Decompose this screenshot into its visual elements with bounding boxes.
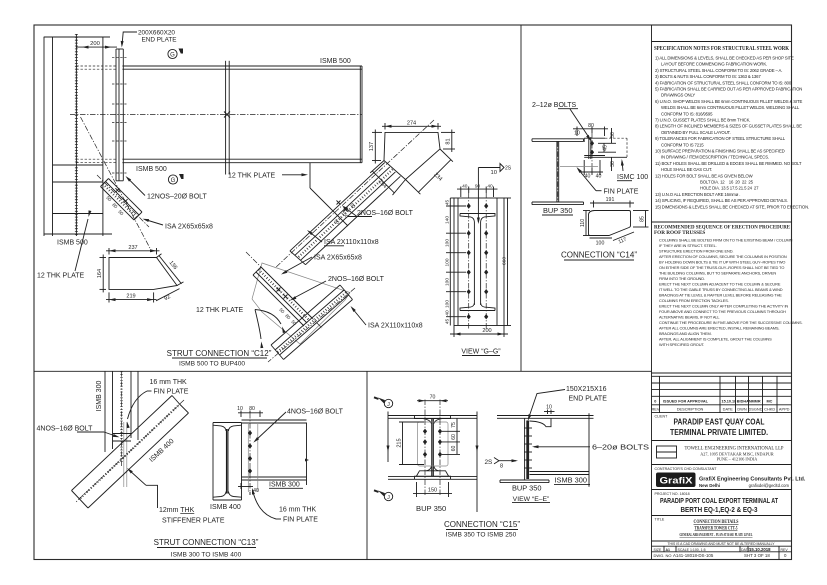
svg-text:274: 274	[407, 120, 416, 126]
svg-text:SIZE: SIZE	[654, 548, 662, 552]
C13 right dims 10 80 40	[237, 406, 263, 495]
C13 right detail ISMB 300 beam	[242, 420, 307, 480]
dimension 200 between column face and end plate	[76, 41, 117, 49]
label 16 mm THK FIN PLATE right with leader	[251, 488, 319, 524]
diagonal brace ISA 2X110x110x8 upper band	[275, 120, 434, 268]
svg-text:THIS IS A CAD DRAWING AND MUST: THIS IS A CAD DRAWING AND MUST NOT BE AL…	[667, 542, 775, 546]
C12 strut ISA 2X65x65x8 band	[246, 252, 322, 328]
brace bolt spacing dims 50 100 50	[333, 202, 356, 225]
svg-text:DWG. NO: DWG. NO	[654, 553, 672, 558]
C15 bolt centrelines	[425, 400, 440, 496]
label ISMB 400 below section	[210, 504, 241, 511]
svg-text:ISMB 500: ISMB 500	[57, 240, 88, 247]
svg-text:ISMB 350 TO ISMB 250: ISMB 350 TO ISMB 250	[446, 532, 517, 539]
C15 dimension 215	[396, 422, 424, 465]
cad note band	[652, 542, 792, 546]
svg-text:BUP 350: BUP 350	[512, 483, 541, 492]
svg-text:REV: REV	[652, 407, 660, 412]
svg-text:4NOS–16Ø BOLT: 4NOS–16Ø BOLT	[37, 426, 94, 433]
VIEW G-G I-beam bottom flange	[460, 303, 495, 311]
svg-text:15) DIMENSIONS & LEVELS SHALL: 15) DIMENSIONS & LEVELS SHALL BE CHECKED…	[655, 204, 809, 209]
svg-text:200: 200	[482, 328, 491, 334]
beam centreline	[70, 112, 362, 118]
C15 dimensions 75 60 60	[442, 418, 460, 454]
label 12 THK PLATE near stiffener with arrow	[228, 173, 308, 180]
C12 main member BUP400 band	[268, 285, 355, 362]
specification notes heading	[654, 46, 789, 52]
svg-text:75: 75	[451, 422, 457, 428]
svg-text:219: 219	[126, 294, 135, 300]
svg-text:ISMB 300 TO ISMB 400: ISMB 300 TO ISMB 400	[171, 552, 242, 559]
column ISMB 500 left flange line	[43, 37, 45, 236]
svg-text:137: 137	[369, 142, 375, 151]
C13 right bolts	[248, 413, 252, 492]
svg-text:10: 10	[237, 406, 243, 412]
svg-text:ISMB 300: ISMB 300	[96, 381, 103, 412]
svg-text:BY HOLDING DOWN BOLTS & TIE IT: BY HOLDING DOWN BOLTS & TIE IT UP WITH S…	[659, 260, 785, 265]
svg-text:12 THK PLATE: 12 THK PLATE	[37, 273, 85, 280]
svg-text:2S: 2S	[505, 166, 512, 172]
svg-text:81: 81	[445, 138, 451, 144]
svg-text:MC: MC	[767, 400, 773, 404]
svg-text:6–20ø BOLTS: 6–20ø BOLTS	[592, 443, 649, 452]
VIEW G-G bolts 12 nos	[467, 203, 489, 319]
svg-text:BOLT DIA. 12 16 20 22 25: BOLT DIA. 12 16 20 22 25	[700, 180, 754, 185]
stiffener plate 12 THK crossing beam	[226, 61, 230, 175]
svg-text:ISMB 300: ISMB 300	[269, 482, 300, 489]
svg-text:16 mm THK: 16 mm THK	[279, 507, 317, 514]
svg-text:AFTER, ALL ALIGNMENT IS COMPLE: AFTER, ALL ALIGNMENT IS COMPLETE, GROUT …	[659, 337, 772, 342]
C15 side extension lines	[387, 412, 479, 513]
svg-text:660: 660	[501, 257, 507, 265]
svg-text:CHKD: CHKD	[764, 407, 775, 412]
C15 top beam	[388, 416, 477, 419]
svg-text:2S: 2S	[485, 459, 493, 466]
svg-text:IN DRAWING / ITEM DESCRIPTION: IN DRAWING / ITEM DESCRIPTION / TECHNICA…	[661, 155, 769, 160]
C14 gusset plate shape	[589, 211, 631, 236]
label ISA 2X65x65x8 at C12 with leader	[280, 255, 362, 276]
svg-text:DRAWINGS ONLY: DRAWINGS ONLY	[661, 93, 695, 98]
svg-text:12NOS–20Ø BOLT: 12NOS–20Ø BOLT	[147, 194, 208, 201]
svg-text:150: 150	[428, 488, 437, 494]
svg-text:100: 100	[445, 239, 451, 247]
recommended box bottom line	[652, 372, 792, 374]
svg-text:70: 70	[430, 395, 436, 401]
svg-text:AFTER ERECTION OF COLUMNS, SEC: AFTER ERECTION OF COLUMNS, SECURE THE CO…	[659, 254, 787, 259]
svg-text:ISMB 300: ISMB 300	[555, 476, 587, 485]
svg-text:GrafiX Engineering Consultants: GrafiX Engineering Consultants Pvt. Ltd.	[699, 477, 806, 483]
C15 dimension 150	[413, 482, 452, 497]
svg-text:HOLE DIA. 13.5 17.5 21.5 24 2: HOLE DIA. 13.5 17.5 21.5 24 27	[700, 186, 759, 191]
svg-text:CONNECTION “C15”: CONNECTION “C15”	[444, 520, 520, 529]
title CONNECTION C15	[444, 520, 520, 539]
svg-text:CLIENT: CLIENT	[655, 415, 669, 419]
beam hidden flange dashed lines	[76, 66, 116, 163]
label FIN PLATE with leader	[560, 166, 639, 195]
svg-text:ISA 2X110x110x8: ISA 2X110x110x8	[324, 239, 379, 246]
BUP 350 top flange	[532, 139, 584, 142]
svg-text:164: 164	[97, 269, 103, 278]
svg-text:15.10.2018: 15.10.2018	[749, 547, 771, 552]
C15 centre I-beam web dark	[432, 418, 434, 476]
svg-text:12) HOLES FOR BOLT SHALL BE AS: 12) HOLES FOR BOLT SHALL BE AS GIVEN BEL…	[655, 173, 754, 178]
dimension 81 right of gusset	[441, 130, 455, 153]
svg-text:ISMB 500 TO BUP400: ISMB 500 TO BUP400	[179, 361, 245, 368]
label 2NOS-16 BOLT at C12 with leader	[289, 276, 384, 302]
svg-text:MMR: MMR	[752, 400, 761, 404]
VIEW G-G plate rectangle	[454, 198, 504, 326]
title STRUT CONNECTION C13	[154, 538, 259, 559]
label 2NOS-16 BOLT upper with leader	[341, 204, 413, 217]
svg-text:VIEW “G–G”: VIEW “G–G”	[461, 349, 501, 356]
svg-text:200X660X20: 200X660X20	[138, 30, 175, 37]
svg-text:14) SPLICING, IF REQUIRED, SHA: 14) SPLICING, IF REQUIRED, SHALL BE AS P…	[655, 198, 788, 203]
label BUP 350 left	[416, 504, 446, 513]
svg-text:TRANSFER TOWER CTT-5: TRANSFER TOWER CTT-5	[695, 526, 738, 532]
C13 fin plate light lines	[124, 422, 127, 487]
svg-text:ISA 2X110x110x8: ISA 2X110x110x8	[368, 323, 423, 330]
fin plate between BUP and ISMC	[589, 137, 591, 159]
gusset piece dimension 237	[106, 245, 160, 255]
C14 gusset dimension 191	[590, 197, 634, 208]
svg-text:10: 10	[491, 170, 497, 176]
svg-text:60: 60	[451, 446, 457, 452]
C12 bolt spacing dims rotated	[278, 307, 297, 326]
svg-text:40: 40	[487, 183, 493, 189]
C14 dimension 40 40	[581, 160, 603, 180]
svg-text:2NOS–16Ø BOLT: 2NOS–16Ø BOLT	[328, 276, 385, 283]
VIEW G-G left dimension column	[445, 198, 466, 326]
C15 dimension 70	[417, 395, 448, 403]
specification notes body	[655, 56, 809, 210]
C14 dimension 50 45 30 rotated	[598, 128, 616, 171]
svg-text:9) TOLERANCES FOR FABRICATION: 9) TOLERANCES FOR FABRICATION OF STEEL S…	[655, 136, 786, 141]
svg-text:12 THK PLATE: 12 THK PLATE	[196, 307, 244, 314]
svg-text:ISMC 100: ISMC 100	[617, 174, 648, 181]
label 4NOS-16 BOLT with leader	[37, 426, 120, 439]
svg-text:ISSUED FOR APPROVAL: ISSUED FOR APPROVAL	[663, 400, 709, 404]
svg-text:50: 50	[610, 132, 616, 138]
end plate bolt tick rows	[112, 58, 127, 173]
svg-text:IF THEY ARE IN STRUCT. STEEL.: IF THEY ARE IN STRUCT. STEEL.	[659, 243, 717, 248]
label ISMB 300 right	[269, 482, 303, 489]
svg-text:grafixdel@gecltd.com: grafixdel@gecltd.com	[749, 483, 790, 488]
dimension 234 along gusset right diagonal	[406, 149, 453, 194]
label 16 mm THK FIN PLATE with leader	[126, 379, 189, 428]
C13 right beam end cut line	[305, 423, 309, 486]
svg-text:PARADIP EAST QUAY COAL: PARADIP EAST QUAY COAL	[674, 418, 765, 427]
gusset step below beam end	[310, 163, 348, 226]
svg-text:A1: A1	[666, 548, 671, 552]
C14 gusset dimension 110	[580, 211, 590, 236]
panel divider vertical between left panel and C14 panel	[520, 25, 522, 371]
svg-text:ERECT THE NEXT COLUMN ADJACENT: ERECT THE NEXT COLUMN ADJACENT TO THE CO…	[659, 282, 781, 287]
label 150X215X16 END PLATE with leader	[526, 386, 607, 421]
svg-text:GENERAL ARRANGEMENT – PLAN AT: GENERAL ARRANGEMENT – PLAN AT BASE PLATE…	[680, 533, 753, 537]
strut bolt cross marks	[115, 188, 127, 203]
svg-text:215: 215	[396, 438, 402, 447]
svg-text:13) U.N.O ALL ERECTION BOLT AR: 13) U.N.O ALL ERECTION BOLT ARE 16mmø .	[655, 192, 740, 197]
ISMB 400 diagonal member band	[72, 396, 189, 509]
svg-text:15.10.18: 15.10.18	[722, 400, 737, 404]
svg-text:0: 0	[654, 400, 656, 404]
contractors band with GrafiX logo	[652, 467, 806, 490]
revision row 0 issued for approval	[654, 400, 772, 404]
label ISMB 400 rotated along band	[148, 438, 175, 464]
C14 gusset dimension 85	[633, 211, 649, 228]
svg-text:SPECIFICATION NOTES FOR STRUCT: SPECIFICATION NOTES FOR STRUCTURAL STEEL…	[654, 46, 789, 52]
BUP 350 bottom flange	[532, 202, 584, 205]
C14 gusset dimension 117 rotated	[613, 232, 634, 245]
gusset piece dimension 164	[97, 255, 106, 293]
C13 right fin plate	[248, 424, 257, 492]
svg-text:150X215X16: 150X215X16	[566, 386, 607, 393]
C14 gusset dimension 100	[590, 238, 613, 247]
C15 fin plate light rounded rect	[418, 422, 449, 466]
label 2-12 BOLTS with leader	[532, 102, 592, 142]
ISMB 300 hatched centreline	[120, 371, 122, 466]
svg-text:200: 200	[90, 41, 100, 47]
svg-text:80: 80	[588, 123, 594, 129]
svg-text:8) LENGTH OF INCLINED MEMBERS: 8) LENGTH OF INCLINED MEMBERS & SIZES OF…	[655, 124, 802, 129]
label 12NOS-20 BOLT with leader	[124, 175, 207, 201]
svg-text:45: 45	[602, 145, 608, 151]
svg-text:SHT 3 OF 18: SHT 3 OF 18	[744, 553, 770, 558]
C15 bolts 6 nos	[423, 429, 442, 458]
svg-text:STRUT CONNECTION “C12”: STRUT CONNECTION “C12”	[167, 349, 272, 358]
svg-text:FOR ROOF TRUSSES: FOR ROOF TRUSSES	[654, 230, 705, 236]
svg-text:DWN: DWN	[737, 407, 746, 412]
specification notes box top line	[652, 41, 792, 43]
label 6-20 BOLTS with leader	[532, 443, 649, 452]
svg-text:2–12ø BOLTS: 2–12ø BOLTS	[532, 102, 577, 109]
beam right end plate	[360, 66, 362, 163]
title band	[652, 518, 792, 542]
svg-text:APPD: APPD	[779, 407, 790, 412]
BUP 350 bottom flange bar	[500, 480, 549, 483]
svg-text:237: 237	[128, 245, 137, 251]
svg-text:COLUMNS FROM ERECTION TACKLES.: COLUMNS FROM ERECTION TACKLES.	[659, 298, 729, 303]
svg-text:CONNECTION “C14”: CONNECTION “C14”	[561, 251, 637, 260]
VIEW G-G weld leader 10 2S	[477, 164, 512, 225]
ISMC 100 channel	[584, 138, 627, 157]
gusset pentagon at beam end	[384, 132, 440, 179]
svg-text:BUP 350: BUP 350	[416, 504, 446, 513]
strut ISA 2X65x65x8 at column	[97, 175, 149, 227]
label 12 THK PLATE at C12 with curved leader	[196, 307, 286, 348]
svg-text:45: 45	[445, 200, 451, 206]
svg-text:THE BUILDING COLUMNS, BUT TO S: THE BUILDING COLUMNS, BUT TO SEPARATE AN…	[659, 271, 776, 276]
section marker G bottom	[168, 174, 183, 184]
svg-text:WELDS SHALL BE 6mm CONTINUOUS: WELDS SHALL BE 6mm CONTINUOUS FILLET WEL…	[661, 105, 800, 110]
C13 right detail ISMB 400 column section	[213, 423, 242, 501]
revision table grid	[652, 376, 792, 412]
svg-text:STRUT CONNECTION “C13”: STRUT CONNECTION “C13”	[154, 538, 259, 547]
svg-text:BUP 350: BUP 350	[543, 206, 572, 215]
svg-text:100: 100	[445, 300, 451, 308]
section marker J bottom	[374, 490, 393, 501]
title VIEW E-E	[512, 496, 550, 503]
brace bolt cross marks	[337, 201, 348, 212]
recommended sequence body	[659, 238, 803, 348]
C14 bolts	[590, 133, 594, 168]
panel divider horizontal above bottom panels	[34, 370, 652, 372]
label ISA 2X65x65x8 (column strut) with leader	[142, 217, 213, 230]
label BUP 350 E-E	[512, 483, 541, 492]
column rung stiffener lines	[44, 165, 112, 234]
C15 bottom beam	[388, 476, 477, 479]
svg-text:END PLATE: END PLATE	[569, 396, 608, 403]
svg-text:DATE: DATE	[723, 407, 733, 412]
svg-text:G: G	[171, 178, 176, 184]
svg-text:7) U.N.O. GUSSET PLATES SHALL: 7) U.N.O. GUSSET PLATES SHALL BE 8mm THI…	[655, 118, 750, 123]
strut bolt spacing dims rotated	[105, 195, 124, 216]
label ISMB 300 E-E	[554, 476, 590, 485]
svg-text:PUNE – 412106 INDIA: PUNE – 412106 INDIA	[717, 457, 758, 462]
svg-text:85: 85	[640, 216, 646, 222]
project band	[652, 492, 792, 516]
svg-text:BERTH EQ-1,EQ-2 & EQ-3: BERTH EQ-1,EQ-2 & EQ-3	[681, 505, 758, 514]
VIEW G-G I-beam top flange	[460, 214, 495, 306]
svg-text:ISA 2X65x65x8: ISA 2X65x65x8	[314, 255, 362, 262]
svg-text:DSGND: DSGND	[748, 407, 762, 412]
svg-text:140: 140	[445, 216, 451, 224]
svg-text:HOLE SHALL BE GAS CUT.: HOLE SHALL BE GAS CUT.	[661, 167, 712, 172]
svg-text:PARADIP PORT COAL EXPORT TERMI: PARADIP PORT COAL EXPORT TERMINAL AT	[660, 496, 778, 505]
svg-text:2NOS–16Ø BOLT: 2NOS–16Ø BOLT	[357, 210, 414, 217]
label ISA 2X110x110x8 upper with leader underlined	[306, 229, 379, 246]
svg-text:30: 30	[610, 161, 616, 167]
svg-text:AFTER ALL COLUMNS ARE ERECTED,: AFTER ALL COLUMNS ARE ERECTED, INSTALL R…	[659, 326, 779, 331]
VIEW E-E bolt ticks on plate	[524, 428, 532, 468]
column label ISMB 500	[57, 240, 88, 247]
label 200X660X20 END PLATE with leader	[120, 30, 176, 48]
column top edge line	[44, 36, 110, 38]
centreline from column to strut	[81, 117, 153, 252]
dimension 154 along gusset lower-left edge	[370, 161, 405, 196]
svg-text:4) FABRICATION OF STRUCTURAL S: 4) FABRICATION OF STRUCTURAL STEEL SHALL…	[655, 80, 792, 85]
VIEW G-G bottom dimension 200	[450, 326, 508, 338]
label ISA 2X110x110x8 at C12 with leader	[349, 305, 422, 329]
VIEW E-E weld symbol 2S 8	[485, 458, 519, 470]
svg-text:191: 191	[606, 197, 615, 203]
svg-text:FIN PLATE: FIN PLATE	[604, 189, 639, 196]
title VIEW G-G	[461, 349, 501, 356]
svg-text:DESCRIPTION: DESCRIPTION	[677, 407, 704, 412]
svg-text:WITH SPECIFIED GROUT.: WITH SPECIFIED GROUT.	[659, 342, 704, 347]
divider between notes boxes	[652, 221, 792, 223]
svg-text:New Delhi: New Delhi	[699, 483, 720, 488]
column label 12 THK PLATE with leader	[37, 210, 91, 279]
panel divider vertical between C13 and C15 panels	[366, 371, 368, 559]
svg-text:ISMB 500: ISMB 500	[320, 58, 351, 65]
svg-text:10) SURFACE PREPARATION & FINI: 10) SURFACE PREPARATION & FINISHING SHAL…	[655, 149, 785, 154]
svg-text:12mm THK: 12mm THK	[159, 507, 195, 514]
svg-text:STIFFENER PLATE: STIFFENER PLATE	[162, 518, 225, 525]
label 4NOS-16 BOLT right with leader	[252, 409, 343, 444]
dwg number row	[654, 553, 788, 558]
svg-text:OBTAINED BY FULL SCALE LAYOUT.: OBTAINED BY FULL SCALE LAYOUT.	[661, 130, 731, 135]
svg-text:10: 10	[574, 131, 580, 137]
svg-text:BRACINGS AT TIE LEVEL & RAFTER: BRACINGS AT TIE LEVEL & RAFTER LEVEL BEF…	[659, 293, 782, 298]
svg-text:SCALE 1:100, 1:5: SCALE 1:100, 1:5	[678, 548, 706, 552]
svg-text:J: J	[387, 495, 390, 501]
svg-text:REV: REV	[781, 548, 789, 552]
VIEW E-E top beam	[497, 416, 594, 419]
svg-text:12 THK PLATE: 12 THK PLATE	[228, 173, 276, 180]
section marker G top	[168, 49, 183, 59]
title CONNECTION C14	[561, 251, 637, 261]
section marker J top	[374, 397, 393, 408]
svg-text:FIRM INTO THE GROUND.: FIRM INTO THE GROUND.	[659, 276, 705, 281]
svg-text:5) FABRICATION SHALL BE CARRIE: 5) FABRICATION SHALL BE CARRIED OUT AS P…	[655, 87, 802, 92]
svg-text:10: 10	[546, 405, 552, 411]
svg-text:ALTERNATIVE BEAMS, IF NOT ALL: ALTERNATIVE BEAMS, IF NOT ALL	[659, 315, 720, 320]
C13 bolt ticks	[113, 434, 131, 442]
towell band	[652, 446, 792, 465]
label ISMB 500 below beam	[136, 166, 167, 173]
gusset plate detail piece	[109, 258, 177, 290]
svg-text:100: 100	[445, 258, 451, 266]
svg-text:100: 100	[596, 241, 605, 247]
beam ISMB 500 top flange	[122, 66, 362, 69]
svg-text:40: 40	[596, 174, 602, 180]
C15 I-beam bottom flange bowl	[415, 466, 451, 479]
svg-text:40: 40	[462, 183, 468, 189]
revision header row	[652, 407, 790, 412]
title STRUT CONNECTION C12	[167, 349, 272, 368]
svg-text:6) U.N.O. SHOP WELDS SHALL BE: 6) U.N.O. SHOP WELDS SHALL BE 6mm CONTIN…	[655, 99, 802, 104]
svg-text:A141-18018-DS-105: A141-18018-DS-105	[673, 553, 714, 558]
svg-text:TITLE: TITLE	[655, 518, 665, 522]
svg-text:GrafiX: GrafiX	[660, 476, 694, 487]
C14 dimension 80 and 10	[573, 123, 608, 137]
svg-text:G: G	[170, 53, 175, 59]
notes column left edge	[651, 25, 653, 560]
svg-text:FOUR ABOVE AND CONNECT TO THE: FOUR ABOVE AND CONNECT TO THE PREVIOUS C…	[659, 309, 786, 314]
client band	[652, 415, 792, 441]
svg-text:ERECT THE NEXT COLUMN ONLY AFT: ERECT THE NEXT COLUMN ONLY AFTER COMPLET…	[659, 304, 788, 309]
svg-text:60: 60	[451, 434, 457, 440]
svg-text:STRUCTURE ERECTION FROM ONE EN: STRUCTURE ERECTION FROM ONE END.	[659, 249, 733, 254]
dimension 274 above gusset	[382, 120, 441, 129]
VIEW G-G bolt centrelines	[469, 193, 487, 330]
recommended sequence heading	[654, 225, 790, 236]
column ISMB 500 second flange line	[52, 37, 54, 236]
svg-text:COLUMNS SHALL BE BOLTED FIRM O: COLUMNS SHALL BE BOLTED FIRM ON TO THE E…	[659, 238, 793, 243]
svg-text:4NOS–16Ø BOLT: 4NOS–16Ø BOLT	[287, 409, 344, 416]
VIEW G-G right dimension 660	[501, 198, 511, 326]
svg-text:TERMINAL PRIVATE LIMITED.: TERMINAL PRIVATE LIMITED.	[670, 428, 768, 437]
column ISMB 500 right face line	[102, 37, 104, 236]
C12 joint gusset outline light	[252, 263, 350, 344]
svg-text:100: 100	[445, 278, 451, 286]
label BUP 350 underlined	[542, 206, 573, 215]
svg-text:BIDHAN: BIDHAN	[737, 400, 752, 404]
VIEW E-E bottom beam ISMB 300	[530, 472, 590, 475]
gusset piece dimension 92 rotated	[156, 289, 180, 303]
svg-text:ISMB 500: ISMB 500	[136, 166, 167, 173]
svg-text:110: 110	[580, 219, 586, 227]
svg-text:ON EITHER SIDE OF THE TRUSS.GU: ON EITHER SIDE OF THE TRUSS.GUY–ROPES SH…	[659, 265, 784, 270]
svg-text:90: 90	[475, 183, 481, 189]
label ISMB 300 rotated	[96, 381, 103, 412]
ISMB 300 vertical member lines	[105, 371, 138, 452]
svg-text:11) BOLT HOLES SHALL BE DRILLE: 11) BOLT HOLES SHALL BE DRILLED & EDGES …	[655, 161, 802, 166]
gusset piece dimension 136 rotated	[157, 254, 184, 286]
C15 I-beam top flange curves	[415, 416, 451, 424]
svg-text:3) BOLTS & NUTS SHALL CONFORM: 3) BOLTS & NUTS SHALL CONFORM TO IS: 136…	[655, 74, 761, 79]
